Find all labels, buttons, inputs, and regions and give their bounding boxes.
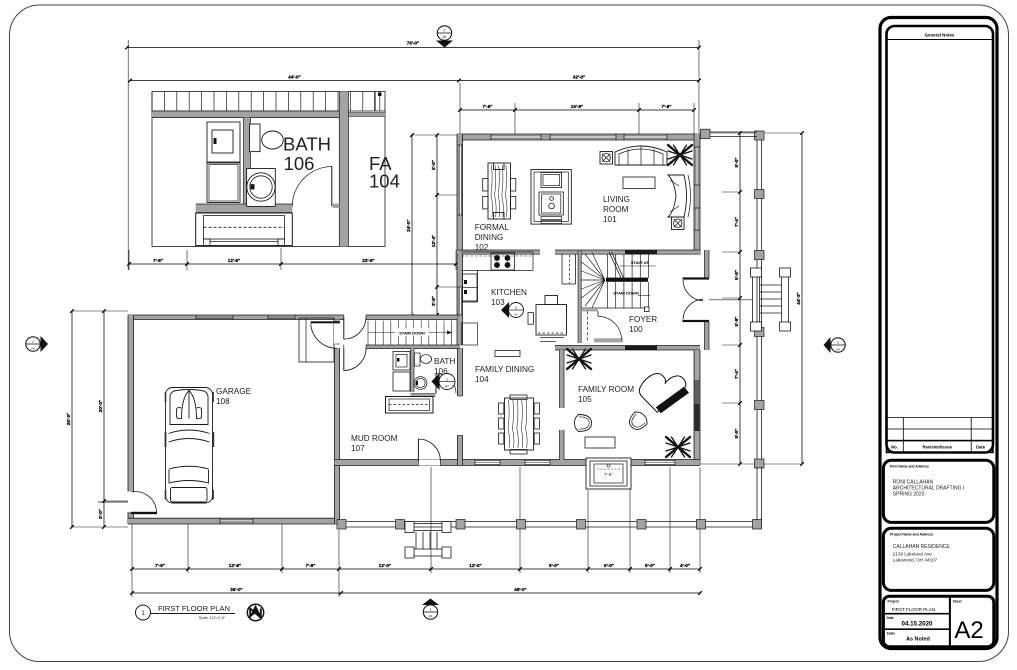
garage bottom wall [128, 518, 339, 524]
svg-text:12'-8": 12'-8" [229, 563, 241, 568]
svg-text:12'-0": 12'-0" [469, 563, 481, 568]
car in garage [166, 388, 213, 504]
drawing title [136, 605, 151, 620]
family block bottom wall [455, 460, 700, 466]
stair bottom edge [581, 307, 649, 309]
bath106 cabinet B [393, 372, 410, 391]
mud room bottom wall [335, 460, 456, 466]
basement stair [367, 321, 369, 346]
svg-text:7'-8": 7'-8" [153, 258, 163, 263]
svg-text:3'-0": 3'-0" [98, 509, 103, 519]
svg-text:FORMAL: FORMAL [475, 223, 510, 232]
svg-text:5'-0": 5'-0" [734, 158, 739, 168]
svg-text:Project Name and Address: Project Name and Address [890, 533, 933, 537]
svg-text:ROOM: ROOM [603, 205, 629, 214]
kitchen counters [462, 251, 534, 253]
svg-text:104: 104 [475, 375, 489, 384]
plant family bottom-right [666, 437, 690, 457]
left elevation marker [26, 337, 40, 351]
svg-text:GARAGE: GARAGE [216, 387, 252, 396]
right overall 44-3 [801, 133, 803, 464]
bottom porch columns [337, 520, 346, 530]
chimney bay bottom [586, 458, 631, 489]
bath106 section marker [439, 374, 455, 390]
svg-text:KITCHEN: KITCHEN [491, 288, 527, 297]
detail: vanity [196, 213, 293, 246]
bath106 sink oval [420, 355, 431, 364]
svg-text:1: 1 [141, 610, 145, 617]
coffee table [623, 177, 655, 189]
revision table [887, 417, 994, 419]
garage side stoop line [98, 501, 128, 503]
svg-text:24'-0": 24'-0" [406, 219, 411, 231]
svg-text:5'-8": 5'-8" [734, 317, 739, 327]
svg-text:BATH: BATH [283, 134, 331, 155]
grand piano [639, 374, 689, 414]
title block outer frame [880, 18, 997, 649]
fridge [463, 274, 478, 301]
bottom dim row 2 [132, 592, 700, 594]
svg-text:A5: A5 [443, 35, 447, 39]
svg-text:No.: No. [891, 444, 898, 449]
porch corner column [701, 129, 711, 139]
left dim 26-3 [72, 310, 130, 312]
enlarged bath detail frame [152, 92, 385, 247]
svg-text:SPRING 2020: SPRING 2020 [893, 492, 925, 498]
svg-text:106: 106 [284, 153, 315, 174]
kitchen island [536, 305, 567, 336]
detail dimension row [128, 250, 130, 270]
svg-text:A6: A6 [429, 614, 433, 618]
garage closet [299, 318, 334, 362]
svg-text:5'-0": 5'-0" [431, 160, 436, 170]
svg-text:CALLAHAN RESIDENCE: CALLAHAN RESIDENCE [893, 544, 951, 550]
pantry [561, 255, 563, 285]
foyer closet [578, 311, 581, 343]
right porch edge [756, 132, 758, 467]
svg-text:FOYER: FOYER [629, 315, 657, 324]
door garage top wall to stair hall [344, 314, 366, 320]
family table [585, 437, 615, 448]
svg-text:FIRST FLOOR PLAN: FIRST FLOOR PLAN [892, 607, 936, 612]
svg-text:STAIR DOWN: STAIR DOWN [613, 291, 639, 296]
window seat arched [615, 146, 667, 165]
svg-text:7'-8": 7'-8" [306, 563, 316, 568]
detail: bottom wall [196, 204, 293, 213]
couch right [668, 175, 687, 217]
svg-text:26'-3": 26'-3" [66, 413, 71, 425]
svg-text:1: 1 [430, 608, 432, 612]
svg-text:LIVING: LIVING [603, 195, 630, 204]
stair up double diagonal [609, 252, 622, 280]
hall stair upper wall (below garage top wall) [364, 345, 460, 349]
dims 5-0 12-4 3-8 [436, 135, 438, 315]
left-mid vertical dims 24ft [411, 135, 413, 316]
detail: interior wall left of bath [244, 118, 251, 207]
svg-text:48'-0": 48'-0" [514, 587, 526, 592]
svg-text:FAMILY DINING: FAMILY DINING [475, 365, 534, 374]
family dining table [501, 395, 537, 453]
bath106 wall vertical [411, 348, 415, 392]
svg-text:108: 108 [216, 397, 230, 406]
mud/bath wall right upper [458, 348, 463, 396]
bottom elevation marker [423, 605, 437, 619]
svg-text:Scale: 1/4"=1'-0": Scale: 1/4"=1'-0" [199, 616, 226, 620]
dim 7-8 / 16-8 / 7-8 [459, 83, 461, 136]
svg-text:1: 1 [444, 29, 446, 33]
svg-text:As Noted: As Noted [906, 637, 930, 643]
bath106 vanity [386, 397, 434, 414]
svg-text:100: 100 [629, 325, 643, 334]
svg-text:6'-0": 6'-0" [604, 563, 614, 568]
svg-text:Project: Project [888, 599, 900, 603]
svg-text:MUD ROOM: MUD ROOM [351, 434, 398, 443]
svg-text:9'-0": 9'-0" [549, 563, 559, 568]
stair treads [607, 254, 609, 278]
svg-text:76'-0": 76'-0" [407, 41, 419, 46]
bath106 cabinet A [393, 352, 410, 371]
family chairs [575, 415, 592, 432]
svg-text:32'-0": 32'-0" [573, 75, 585, 80]
buffet top [495, 351, 520, 357]
mudroom back door [418, 460, 440, 466]
detail: sink oval [262, 131, 284, 149]
left dim 20-0 / 3-0 [103, 311, 105, 527]
fireplace unit [531, 170, 571, 225]
stair winders [582, 262, 606, 280]
svg-text:107: 107 [351, 444, 365, 453]
svg-text:7'-5": 7'-5" [604, 472, 613, 477]
svg-text:STAIR DOWN: STAIR DOWN [399, 331, 425, 336]
svg-text:36'-0": 36'-0" [230, 587, 242, 592]
door garage to laundry hall [334, 323, 340, 344]
front door bay walls [705, 250, 710, 278]
stair left wall [578, 251, 581, 312]
dining table [488, 163, 511, 219]
bottom porch edge [339, 521, 762, 523]
svg-text:Date: Date [887, 616, 894, 620]
bath106 sink tank [415, 353, 421, 366]
bath106 toilet [414, 377, 427, 390]
stair up line + label [620, 265, 656, 267]
svg-text:Sheet: Sheet [953, 599, 963, 603]
detail: right vertical wall [339, 92, 348, 247]
porch top rail [700, 131, 757, 133]
kitchen section marker [509, 303, 524, 318]
svg-text:2139 Lakeland Ave: 2139 Lakeland Ave [893, 552, 932, 557]
svg-text:101: 101 [603, 215, 617, 224]
svg-text:23'-8": 23'-8" [362, 258, 374, 263]
svg-text:A7: A7 [514, 312, 518, 316]
top block left wall [457, 134, 463, 254]
svg-text:105: 105 [578, 395, 592, 404]
door hall to mud room [344, 345, 366, 350]
stair landing bar [606, 278, 648, 282]
plant family top [567, 349, 591, 369]
front steps right [751, 268, 791, 331]
svg-text:7'-4": 7'-4" [734, 369, 739, 379]
general notes box [887, 26, 994, 453]
svg-text:STAIR UP: STAIR UP [631, 260, 650, 265]
garage side door leaf [131, 512, 157, 514]
svg-text:Scale: Scale [887, 631, 896, 635]
svg-text:4: 4 [515, 306, 517, 310]
right elevation marker [831, 338, 845, 352]
firm name box [883, 460, 993, 522]
svg-text:44'-3": 44'-3" [796, 292, 801, 304]
svg-text:7'-8": 7'-8" [483, 104, 493, 109]
kitchen left counter [477, 271, 479, 303]
svg-text:Firm Name and Address: Firm Name and Address [890, 464, 929, 468]
svg-text:DINING: DINING [475, 233, 504, 242]
plant top-right [668, 145, 692, 165]
svg-text:FIRST FLOOR PLAN: FIRST FLOOR PLAN [158, 604, 230, 613]
svg-text:A2: A2 [954, 617, 983, 644]
marker top [437, 26, 451, 40]
bath106 lower wall [411, 394, 436, 397]
detail: toilet [247, 169, 276, 207]
detail: medicine cabinet [207, 122, 240, 162]
svg-text:General Notes: General Notes [925, 33, 955, 38]
dim 44ft / 32ft [130, 80, 699, 82]
detail: wall stub right of door [333, 204, 340, 209]
living/kitchen interior wall [457, 250, 540, 254]
front double door arcs [683, 280, 703, 301]
family block right wall [694, 350, 700, 465]
svg-text:12'-0": 12'-0" [379, 563, 391, 568]
svg-text:12'-4": 12'-4" [431, 235, 436, 247]
speaker bottom [672, 217, 685, 230]
svg-text:106: 106 [434, 367, 448, 376]
dining west wall lower [458, 435, 463, 465]
svg-text:Lakewood, OH 44107: Lakewood, OH 44107 [893, 558, 938, 563]
kitchen lower cabinet [462, 323, 478, 345]
svg-text:12'-8": 12'-8" [228, 258, 240, 263]
svg-text:16'-8": 16'-8" [571, 104, 583, 109]
svg-text:FAMILY ROOM: FAMILY ROOM [578, 385, 634, 394]
stair down label [638, 295, 650, 297]
svg-text:103: 103 [491, 298, 505, 307]
svg-text:1: 1 [446, 377, 448, 381]
svg-text:7'-8": 7'-8" [155, 563, 165, 568]
walk line to steps [709, 299, 753, 301]
svg-text:7'-4": 7'-4" [734, 217, 739, 227]
svg-text:A4: A4 [31, 346, 35, 350]
family dining / family room wall [560, 350, 565, 408]
kitchen left wall lower [457, 254, 463, 345]
svg-text:44'-0": 44'-0" [288, 75, 300, 80]
svg-text:2: 2 [32, 340, 34, 344]
svg-text:102: 102 [475, 243, 489, 252]
svg-text:Date: Date [976, 444, 986, 449]
garage top wall [128, 315, 457, 320]
detail: door leaf and swing [331, 166, 333, 206]
dining chairs [483, 179, 488, 192]
svg-text:3'-8": 3'-8" [431, 296, 436, 306]
right porch dims [739, 133, 741, 464]
svg-text:5'-0": 5'-0" [734, 429, 739, 439]
svg-text:104: 104 [369, 171, 400, 192]
svg-text:Revision/Issue: Revision/Issue [923, 444, 953, 449]
dim 76ft overall [127, 40, 129, 270]
garage left wall [128, 315, 134, 492]
detail: shelf beside wall [250, 124, 261, 152]
garage side door arc [132, 492, 157, 512]
detail: top wall [152, 111, 340, 118]
svg-text:2: 2 [837, 341, 839, 345]
front door jamb bars [683, 277, 710, 279]
north arrow [247, 604, 263, 620]
speaker top [600, 152, 613, 165]
top block right wall [694, 134, 700, 254]
detail: lower cabinet [207, 163, 240, 203]
svg-text:4'-0": 4'-0" [680, 563, 690, 568]
living/stair interior wall [555, 250, 700, 254]
svg-text:BATH: BATH [434, 357, 455, 366]
svg-text:5'-8": 5'-8" [734, 270, 739, 280]
svg-text:7'-8": 7'-8" [662, 104, 672, 109]
svg-text:5'-0": 5'-0" [645, 563, 655, 568]
right porch columns [755, 131, 765, 140]
svg-text:20'-0": 20'-0" [98, 400, 103, 412]
middle wall y345 [555, 346, 700, 351]
bath106 door [435, 374, 437, 394]
svg-text:04.15.2020: 04.15.2020 [902, 621, 934, 628]
detail: joist band [151, 92, 153, 112]
project name box [883, 528, 993, 590]
top block top wall with windows [457, 134, 700, 140]
stove [491, 253, 515, 270]
bottom steps (garage stoop) [405, 522, 451, 559]
svg-text:A4: A4 [836, 347, 840, 351]
svg-text:A7: A7 [445, 384, 449, 388]
sheet info box [883, 596, 993, 647]
bottom dim row 1 [131, 524, 133, 597]
garage right / mud wall [335, 348, 340, 524]
detail top-right door jamb lines [374, 92, 376, 112]
